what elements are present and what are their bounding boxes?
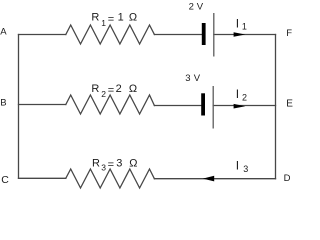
wire middle branch resistor to battery — [154, 105, 201, 107]
svg-text:A: A — [0, 26, 7, 37]
wire top branch resistor to battery — [154, 34, 201, 36]
battery 2V negative plate — [202, 23, 206, 45]
wire bottom branch left segment — [19, 177, 66, 179]
wire middle branch battery to node E — [213, 105, 275, 107]
current arrow I1 — [234, 32, 246, 37]
svg-text:D: D — [284, 173, 291, 184]
resistor R2 — [66, 95, 155, 114]
svg-text:B: B — [0, 97, 6, 108]
current arrow I2 — [234, 104, 246, 109]
wire middle branch left segment — [19, 104, 66, 106]
svg-text:I1: I1 — [236, 16, 247, 31]
wire top branch left segment — [19, 34, 66, 36]
current arrow I3 — [203, 176, 214, 182]
battery 3V positive plate — [212, 86, 214, 129]
battery 3V negative plate — [201, 93, 205, 115]
wire bottom branch resistor to node D — [154, 178, 275, 180]
svg-text:C: C — [1, 174, 9, 186]
svg-text:I3: I3 — [236, 159, 248, 174]
svg-text:I2: I2 — [236, 87, 247, 103]
svg-text:F: F — [286, 28, 292, 39]
svg-text:E: E — [286, 98, 293, 109]
svg-text:3V: 3V — [185, 73, 201, 84]
wire left vertical A-B-C — [18, 35, 20, 179]
wire top branch battery to node F — [214, 34, 276, 36]
resistor R1 — [66, 25, 155, 44]
resistor R3 — [66, 169, 155, 188]
battery 2V positive plate — [213, 13, 215, 57]
svg-text:2V: 2V — [189, 1, 204, 12]
wire right vertical F-E-D — [275, 35, 277, 179]
